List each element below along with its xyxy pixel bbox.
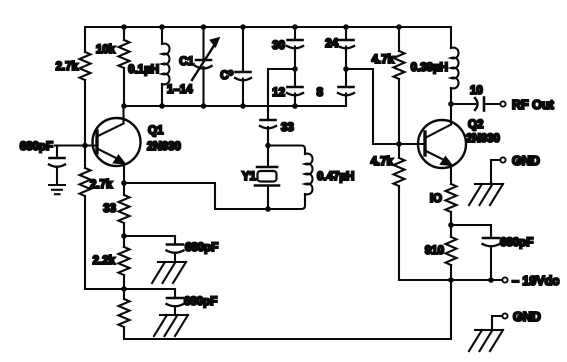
wire 30/12 tap to 33 cap column: [268, 69, 295, 120]
svg-text:Y1: Y1: [242, 171, 257, 183]
svg-text:2.2k: 2.2k: [93, 255, 116, 267]
svg-text:2N930: 2N930: [147, 141, 181, 153]
svg-text:2N930: 2N930: [466, 133, 500, 145]
resistor IO (emitter): [430, 184, 457, 225]
transistor Q2 2N930: [418, 119, 500, 168]
svg-text:0.47µH: 0.47µH: [317, 171, 354, 183]
svg-text:C1: C1: [179, 56, 194, 68]
svg-text:– 19Vdc: – 19Vdc: [512, 274, 559, 288]
resistor 2.2k: [93, 236, 130, 289]
resistor 4.7k (lower): [371, 144, 405, 280]
resistor 2.7k (lower): [80, 168, 113, 196]
ground (hatched, upper GND): [469, 184, 503, 205]
resistor 4.7k (upper): [372, 27, 405, 144]
wire second rail: [124, 105, 346, 107]
svg-text:680pF: 680pF: [185, 242, 218, 254]
svg-text:Q1: Q1: [148, 125, 164, 137]
node RF Out: [500, 98, 554, 112]
wire top rail: [85, 26, 451, 28]
wire lower-left horizontal: [85, 288, 175, 290]
capacitor 8: [317, 69, 354, 106]
svg-text:IO: IO: [430, 193, 442, 205]
resistor (bottom left, unlabeled): [119, 289, 130, 339]
svg-text:10: 10: [470, 85, 483, 97]
svg-text:4.7k: 4.7k: [372, 54, 395, 66]
ground (hatched, bypass 2): [154, 315, 188, 336]
wire Q1 base: [55, 144, 97, 146]
ground (earth, under input 680pF): [49, 185, 65, 194]
capacitor 680pF (output bypass): [451, 225, 533, 280]
node GND (lower): [492, 310, 541, 329]
svg-text:1–14: 1–14: [167, 84, 193, 96]
wire left vertical (2.7k branch): [84, 27, 86, 289]
capacitor 10 (RF output coupling): [451, 85, 500, 111]
wire Q1 emitter to tank bottom: [124, 183, 268, 209]
inductor 0.39uH: [411, 48, 459, 104]
capacitor 680pF (emitter bypass 1): [167, 236, 219, 262]
svg-text:680pF: 680pF: [500, 237, 533, 249]
svg-text:680pF: 680pF: [20, 141, 53, 153]
resistor 2.7k (top): [56, 52, 91, 80]
wire Q2 collector: [450, 104, 452, 125]
ground (hatched, lower GND): [469, 330, 503, 351]
capacitor 680pF (input, left): [20, 141, 65, 184]
capacitor 680pF (emitter bypass 2): [167, 289, 218, 315]
svg-text:GND: GND: [512, 154, 540, 168]
node -19Vdc: [502, 274, 559, 288]
capacitor 30: [272, 27, 303, 69]
transistor Q1 2N930: [93, 118, 181, 166]
crystal Y1: [242, 146, 279, 210]
wire bottom return: [124, 280, 451, 339]
svg-text:30: 30: [272, 40, 285, 52]
svg-text:33: 33: [103, 203, 116, 215]
capacitor C*: [220, 27, 251, 106]
wire 24/8 tap to Q2 base: [346, 69, 425, 144]
svg-text:GND: GND: [513, 310, 541, 324]
svg-text:10k: 10k: [96, 44, 116, 56]
wire Q1 emitter: [123, 163, 125, 183]
wire -19Vdc rail: [399, 279, 502, 281]
capacitor 24: [325, 27, 354, 69]
resistor 10k: [96, 27, 130, 106]
svg-text:8: 8: [317, 87, 324, 99]
inductor 0.47uH (tank): [268, 146, 354, 210]
capacitor 33: [260, 120, 294, 146]
wire Q1 collector: [122, 106, 124, 124]
svg-text:2.7k: 2.7k: [90, 179, 113, 191]
svg-text:0.39µH: 0.39µH: [411, 62, 448, 74]
svg-text:C*: C*: [220, 70, 233, 82]
wire emitter ladder tap: [124, 235, 175, 237]
resistor 33: [103, 183, 129, 236]
wire Q2 emitter: [450, 165, 452, 184]
svg-text:0.1µH: 0.1µH: [128, 64, 159, 76]
svg-text:24: 24: [325, 38, 338, 50]
node GND (upper): [491, 154, 540, 183]
capacitor C1 variable 1-14: [167, 27, 220, 106]
ground (hatched, bypass 1): [152, 262, 186, 283]
svg-text:2.7k: 2.7k: [56, 61, 79, 73]
svg-text:Q2: Q2: [468, 119, 483, 131]
svg-text:RF Out: RF Out: [512, 98, 554, 112]
svg-text:680pF: 680pF: [184, 296, 217, 308]
svg-text:910: 910: [425, 245, 444, 257]
wire right vertical from top rail: [450, 27, 452, 48]
inductor 0.1uH: [128, 27, 169, 106]
svg-text:4.7k: 4.7k: [371, 156, 394, 168]
capacitor 12: [272, 69, 303, 106]
resistor 910: [425, 225, 457, 280]
svg-text:33: 33: [281, 122, 294, 134]
svg-text:12: 12: [272, 87, 285, 99]
